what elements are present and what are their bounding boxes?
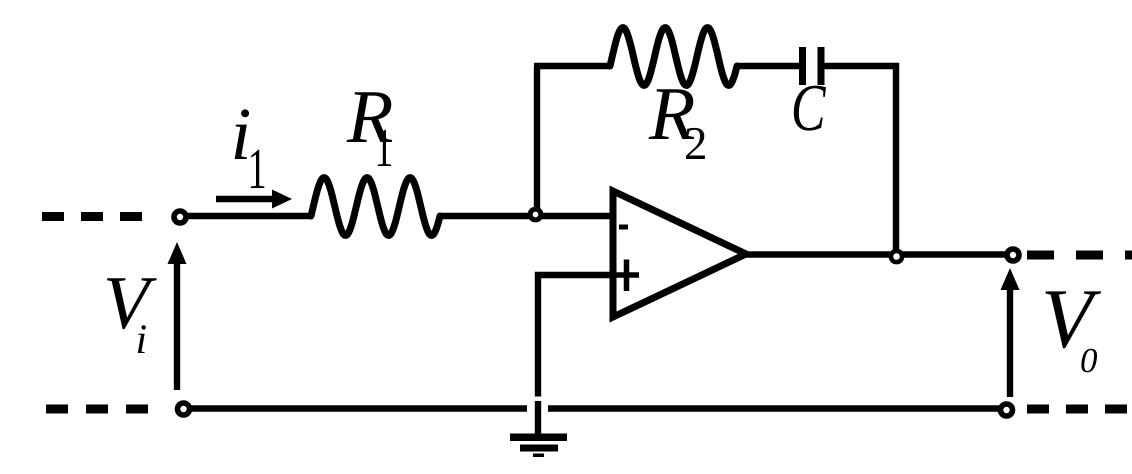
wire: R2 to capacitor C	[737, 63, 799, 69]
wire: ground drop through rail	[535, 401, 541, 436]
resistor R1	[311, 178, 440, 236]
label R1	[347, 92, 393, 166]
voltage arrow Vo	[1001, 268, 1020, 397]
wire: bottom rail right	[548, 405, 1004, 411]
label i1	[235, 109, 265, 188]
current arrow i1	[216, 190, 292, 209]
wire: top-right dashed output lead	[1027, 251, 1132, 260]
wire: non-inverting input	[538, 275, 613, 397]
node: output junction	[891, 251, 902, 262]
label C	[794, 86, 826, 131]
wire: top-left dashed input lead	[42, 212, 146, 221]
input terminal Vi+	[174, 211, 186, 223]
bottom-left terminal Vi-	[178, 403, 190, 415]
capacitor C	[803, 47, 822, 85]
node: inverting input junction	[530, 209, 541, 220]
wire: input terminal to R1	[188, 213, 312, 219]
wire: bottom rail left	[186, 405, 527, 411]
ground	[510, 434, 567, 458]
label R2	[649, 89, 705, 159]
output terminal Vo+	[1007, 249, 1019, 261]
wire: bottom-right dashed lead	[1027, 405, 1132, 414]
wire: feedback left vertical	[534, 66, 540, 216]
wire: R1 to inverting node	[440, 213, 613, 219]
resistor R2	[610, 28, 737, 86]
wire: op-amp output	[746, 251, 1010, 257]
label Vo	[1045, 291, 1101, 372]
op-amp U1	[613, 191, 746, 317]
bottom-right terminal Vo-	[1001, 404, 1013, 416]
voltage arrow Vi	[168, 242, 187, 390]
wire: top feedback to R2	[534, 63, 611, 69]
wire: C to output node (right vertical)	[825, 66, 897, 253]
wire: bottom-left dashed lead	[46, 405, 150, 414]
label Vi	[107, 278, 157, 353]
